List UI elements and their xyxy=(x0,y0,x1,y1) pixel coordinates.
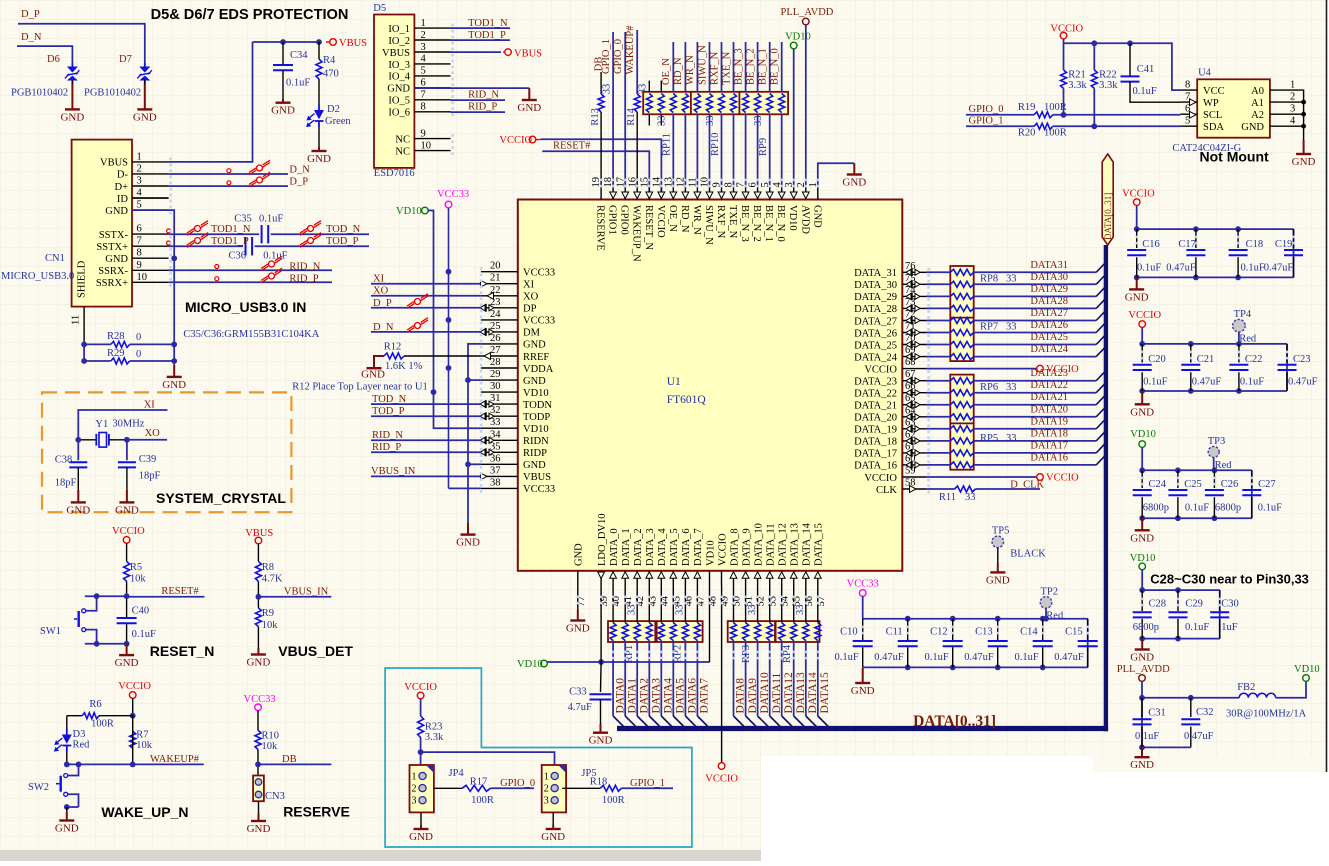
svg-text:DATA_18: DATA_18 xyxy=(854,437,897,448)
svg-text:R4: R4 xyxy=(323,55,336,66)
svg-text:RREF: RREF xyxy=(523,352,549,363)
svg-text:DATA31: DATA31 xyxy=(1030,260,1068,271)
svg-text:GND: GND xyxy=(115,657,139,669)
svg-text:1: 1 xyxy=(412,772,417,783)
svg-text:DATA29: DATA29 xyxy=(1030,284,1068,295)
svg-text:RP7: RP7 xyxy=(980,321,998,332)
svg-text:NC: NC xyxy=(395,134,410,145)
svg-text:DATA_6: DATA_6 xyxy=(681,528,692,566)
svg-text:TP4: TP4 xyxy=(1234,309,1252,320)
svg-text:R13: R13 xyxy=(590,108,601,126)
svg-text:GND: GND xyxy=(361,369,385,381)
svg-text:IO_1: IO_1 xyxy=(388,24,410,35)
svg-text:C41: C41 xyxy=(1137,64,1155,75)
svg-text:6: 6 xyxy=(421,78,426,89)
svg-text:8: 8 xyxy=(421,102,426,113)
svg-text:D+: D+ xyxy=(114,182,128,193)
svg-text:IO_2: IO_2 xyxy=(388,36,410,47)
svg-text:DATA16: DATA16 xyxy=(1030,452,1068,463)
svg-text:GND: GND xyxy=(115,504,139,516)
svg-text:VCC33: VCC33 xyxy=(523,268,555,279)
svg-text:GND: GND xyxy=(271,105,295,117)
svg-text:Red: Red xyxy=(1239,333,1257,344)
svg-text:DATA_12: DATA_12 xyxy=(778,523,789,566)
svg-text:33: 33 xyxy=(747,605,758,616)
svg-text:C21: C21 xyxy=(1197,354,1215,365)
svg-text:DATA_30: DATA_30 xyxy=(854,280,897,291)
svg-text:1: 1 xyxy=(544,772,549,783)
svg-text:Y1: Y1 xyxy=(95,419,108,430)
svg-text:GPIO_1: GPIO_1 xyxy=(601,39,612,74)
svg-text:A2: A2 xyxy=(1251,110,1264,121)
svg-text:GND: GND xyxy=(523,376,546,387)
svg-text:DATA21: DATA21 xyxy=(1030,392,1068,403)
svg-text:BE_N_1: BE_N_1 xyxy=(763,205,774,242)
svg-text:XO: XO xyxy=(145,428,161,439)
svg-text:GND: GND xyxy=(842,177,866,189)
svg-text:SW2: SW2 xyxy=(28,782,49,793)
svg-text:100R: 100R xyxy=(1044,102,1067,113)
svg-text:TOD1_P: TOD1_P xyxy=(211,236,249,247)
svg-text:8: 8 xyxy=(1185,80,1190,91)
svg-text:GND: GND xyxy=(1130,532,1154,544)
svg-text:IO_3: IO_3 xyxy=(388,60,410,71)
svg-text:RP3: RP3 xyxy=(741,645,752,663)
svg-text:TOD1_P: TOD1_P xyxy=(468,30,506,41)
svg-text:Green: Green xyxy=(325,116,351,127)
svg-text:GND: GND xyxy=(1125,291,1149,303)
svg-text:R10: R10 xyxy=(262,731,280,742)
svg-text:R7: R7 xyxy=(136,730,148,741)
svg-text:TOD_P: TOD_P xyxy=(326,236,359,247)
svg-text:GND: GND xyxy=(541,831,565,843)
svg-text:BE_N_2: BE_N_2 xyxy=(745,48,756,85)
svg-text:0.47uF: 0.47uF xyxy=(1264,263,1294,274)
svg-text:27: 27 xyxy=(490,345,501,356)
svg-text:DATA26: DATA26 xyxy=(1030,320,1068,331)
svg-text:D6: D6 xyxy=(47,54,60,65)
svg-text:10k: 10k xyxy=(262,620,279,631)
svg-text:100R: 100R xyxy=(1044,127,1067,138)
svg-text:MICRO_USB3.0: MICRO_USB3.0 xyxy=(1,271,74,282)
svg-text:FT601Q: FT601Q xyxy=(667,394,707,406)
svg-text:0.1uF: 0.1uF xyxy=(1143,376,1167,387)
svg-text:RESET#: RESET# xyxy=(161,586,199,597)
svg-text:D_N: D_N xyxy=(373,322,394,333)
svg-text:3.3k: 3.3k xyxy=(425,732,444,743)
svg-text:RP8: RP8 xyxy=(980,274,998,285)
svg-text:GND: GND xyxy=(1130,406,1154,418)
svg-text:10k: 10k xyxy=(130,574,147,585)
svg-text:WR_N: WR_N xyxy=(691,205,702,235)
svg-text:TP5: TP5 xyxy=(992,526,1010,537)
svg-text:0.47uF: 0.47uF xyxy=(1184,731,1214,742)
svg-text:VCCIO: VCCIO xyxy=(1050,23,1083,34)
svg-text:D_P: D_P xyxy=(21,9,40,20)
svg-text:VCCIO: VCCIO xyxy=(1128,310,1161,321)
svg-text:0.47uF: 0.47uF xyxy=(874,652,904,663)
svg-text:33: 33 xyxy=(657,116,668,127)
svg-text:SSRX-: SSRX- xyxy=(98,266,128,277)
svg-text:ID: ID xyxy=(117,194,128,205)
svg-text:GND: GND xyxy=(566,623,590,635)
svg-text:WAKE_UP_N: WAKE_UP_N xyxy=(101,804,188,820)
svg-text:0.1uF: 0.1uF xyxy=(132,629,156,640)
svg-text:DATA25: DATA25 xyxy=(1030,332,1068,343)
svg-text:C39: C39 xyxy=(139,454,157,465)
svg-text:GND: GND xyxy=(307,153,331,165)
svg-text:R12 Place Top Layer near to U1: R12 Place Top Layer near to U1 xyxy=(292,382,428,393)
svg-text:DATA_9: DATA_9 xyxy=(741,528,752,566)
svg-text:WP: WP xyxy=(1203,98,1219,109)
svg-text:C31: C31 xyxy=(1148,708,1166,719)
svg-text:R14: R14 xyxy=(626,107,637,125)
svg-text:SYSTEM_CRYSTAL: SYSTEM_CRYSTAL xyxy=(156,490,286,506)
svg-text:RP10: RP10 xyxy=(710,133,721,156)
svg-text:DATA_10: DATA_10 xyxy=(753,523,764,566)
svg-text:C18: C18 xyxy=(1246,239,1264,250)
svg-text:DATA15: DATA15 xyxy=(819,672,831,713)
svg-text:VBUS: VBUS xyxy=(514,49,542,60)
svg-text:C28~C30 near to Pin30,33: C28~C30 near to Pin30,33 xyxy=(1150,572,1309,587)
svg-text:0.1uF: 0.1uF xyxy=(1185,622,1209,633)
svg-text:2: 2 xyxy=(544,784,549,795)
svg-text:GND: GND xyxy=(523,460,546,471)
svg-text:VBUS: VBUS xyxy=(382,48,410,59)
svg-text:VCC33: VCC33 xyxy=(244,694,276,705)
svg-text:D_CLK: D_CLK xyxy=(1010,479,1044,490)
svg-text:BLACK: BLACK xyxy=(1010,549,1046,560)
svg-text:0.1uF: 0.1uF xyxy=(1137,263,1161,274)
svg-text:D5: D5 xyxy=(373,3,386,14)
svg-text:2: 2 xyxy=(1290,92,1295,103)
svg-text:GND: GND xyxy=(1292,156,1316,168)
svg-text:7: 7 xyxy=(137,236,142,247)
svg-text:DATA_31: DATA_31 xyxy=(854,268,897,279)
svg-text:33: 33 xyxy=(675,605,686,616)
svg-text:33: 33 xyxy=(601,84,612,95)
svg-text:9: 9 xyxy=(421,128,426,139)
svg-text:29: 29 xyxy=(490,369,501,380)
svg-text:D_P: D_P xyxy=(289,177,308,188)
svg-text:RID_P: RID_P xyxy=(468,102,497,113)
svg-text:D3: D3 xyxy=(73,729,86,740)
svg-text:C27: C27 xyxy=(1258,479,1276,490)
svg-text:GND: GND xyxy=(162,379,186,391)
svg-text:C13: C13 xyxy=(975,627,993,638)
svg-text:WAKEUP#: WAKEUP# xyxy=(625,25,636,75)
svg-text:30MHz: 30MHz xyxy=(112,418,144,429)
svg-text:R21: R21 xyxy=(1068,70,1086,81)
svg-text:VCCIO: VCCIO xyxy=(1046,473,1079,484)
svg-text:XI: XI xyxy=(523,280,535,291)
svg-text:RESERVE: RESERVE xyxy=(595,205,606,251)
svg-text:DATA18: DATA18 xyxy=(1030,428,1068,439)
svg-text:TOD1_N: TOD1_N xyxy=(211,224,251,235)
svg-text:10: 10 xyxy=(421,140,432,151)
svg-text:RESET#: RESET# xyxy=(553,140,591,151)
svg-text:RID_P: RID_P xyxy=(372,442,401,453)
svg-text:GPIO_0: GPIO_0 xyxy=(613,39,624,74)
svg-text:C17: C17 xyxy=(1178,239,1196,250)
svg-text:D_P: D_P xyxy=(373,298,392,309)
svg-text:33: 33 xyxy=(627,605,638,616)
svg-text:VCCIO: VCCIO xyxy=(404,682,437,693)
svg-text:GPIO0: GPIO0 xyxy=(619,205,630,235)
svg-text:DATA_8: DATA_8 xyxy=(729,528,740,566)
svg-text:33: 33 xyxy=(1006,382,1017,393)
svg-text:VD10: VD10 xyxy=(1294,664,1320,675)
svg-text:3: 3 xyxy=(412,796,417,807)
svg-text:A0: A0 xyxy=(1251,86,1264,97)
svg-text:GND: GND xyxy=(66,504,90,516)
svg-text:U1: U1 xyxy=(667,376,681,388)
svg-text:RP2: RP2 xyxy=(672,645,683,663)
svg-text:C33: C33 xyxy=(569,686,587,697)
svg-text:0.47uF: 0.47uF xyxy=(964,652,994,663)
svg-text:C24: C24 xyxy=(1149,479,1167,490)
svg-text:TP3: TP3 xyxy=(1208,436,1226,447)
svg-text:0: 0 xyxy=(136,332,141,343)
svg-text:C19: C19 xyxy=(1275,239,1293,250)
svg-text:Not Mount: Not Mount xyxy=(1200,149,1270,165)
svg-text:GND: GND xyxy=(133,111,157,123)
svg-text:C20: C20 xyxy=(1148,354,1166,365)
svg-text:DATA_21: DATA_21 xyxy=(854,401,897,412)
svg-text:DATA_1: DATA_1 xyxy=(621,528,632,566)
svg-text:RXF_N: RXF_N xyxy=(715,205,726,239)
svg-text:38: 38 xyxy=(490,477,501,488)
svg-text:R9: R9 xyxy=(262,608,274,619)
svg-text:C30: C30 xyxy=(1221,598,1239,609)
svg-text:0: 0 xyxy=(136,349,141,360)
svg-text:DATA_0: DATA_0 xyxy=(609,528,620,566)
svg-text:BE_N_2: BE_N_2 xyxy=(751,205,762,242)
svg-text:4.7uF: 4.7uF xyxy=(568,702,592,713)
svg-text:NC: NC xyxy=(395,146,410,157)
svg-text:DATA_2: DATA_2 xyxy=(633,528,644,566)
svg-text:0.1uF: 0.1uF xyxy=(1185,503,1209,514)
svg-text:30: 30 xyxy=(490,381,501,392)
svg-text:DATA[0..31]: DATA[0..31] xyxy=(913,713,996,730)
svg-text:C40: C40 xyxy=(132,606,150,617)
svg-text:GND: GND xyxy=(1130,759,1154,771)
svg-text:RP4: RP4 xyxy=(782,644,793,663)
svg-text:IO_6: IO_6 xyxy=(388,108,410,119)
svg-text:DATA_29: DATA_29 xyxy=(854,292,897,303)
svg-text:GPIO1: GPIO1 xyxy=(607,205,618,235)
svg-text:FB2: FB2 xyxy=(1237,682,1255,693)
svg-text:Red: Red xyxy=(73,740,91,751)
svg-text:C11: C11 xyxy=(886,627,903,638)
svg-text:4: 4 xyxy=(137,188,143,199)
svg-text:C14: C14 xyxy=(1020,627,1038,638)
svg-text:GND: GND xyxy=(409,831,433,843)
svg-text:VCC33: VCC33 xyxy=(523,316,555,327)
svg-text:WAKEUP_N: WAKEUP_N xyxy=(631,205,642,262)
svg-text:RP1: RP1 xyxy=(624,645,635,663)
svg-text:0.1uF: 0.1uF xyxy=(1014,652,1038,663)
svg-text:DB: DB xyxy=(282,754,297,765)
svg-text:68: 68 xyxy=(905,357,916,368)
svg-text:PLL_AVDD: PLL_AVDD xyxy=(781,7,834,18)
svg-text:SDA: SDA xyxy=(1203,122,1224,133)
svg-text:100R: 100R xyxy=(471,795,494,806)
svg-text:A1: A1 xyxy=(1251,98,1264,109)
svg-text:RP11: RP11 xyxy=(662,133,673,156)
svg-text:C32: C32 xyxy=(1196,707,1214,718)
svg-text:3.3k: 3.3k xyxy=(1068,80,1087,91)
svg-text:RESET_N: RESET_N xyxy=(150,643,215,659)
svg-text:59: 59 xyxy=(905,466,916,477)
svg-text:DATA_22: DATA_22 xyxy=(854,389,897,400)
svg-text:TOD1_N: TOD1_N xyxy=(468,18,508,29)
svg-text:SSTX-: SSTX- xyxy=(99,230,129,241)
svg-text:DATA19: DATA19 xyxy=(1030,416,1068,427)
svg-text:0.1uF: 0.1uF xyxy=(834,652,858,663)
svg-text:C22: C22 xyxy=(1245,354,1263,365)
svg-text:0.1uF: 0.1uF xyxy=(924,652,948,663)
svg-text:4: 4 xyxy=(421,54,427,65)
svg-text:GPIO_0: GPIO_0 xyxy=(500,778,535,789)
svg-text:4: 4 xyxy=(1290,116,1296,127)
svg-text:0.1uF: 0.1uF xyxy=(1135,731,1159,742)
svg-text:GND: GND xyxy=(986,574,1010,586)
svg-text:26: 26 xyxy=(490,333,501,344)
svg-text:6800p: 6800p xyxy=(1143,503,1169,514)
svg-text:RP9: RP9 xyxy=(758,138,769,156)
svg-text:DATA_13: DATA_13 xyxy=(790,523,801,566)
svg-text:PLL_AVDD: PLL_AVDD xyxy=(1117,664,1170,675)
svg-text:RP5: RP5 xyxy=(980,433,998,444)
svg-text:1: 1 xyxy=(1290,80,1295,91)
svg-text:R19: R19 xyxy=(1018,102,1036,113)
svg-text:18pF: 18pF xyxy=(139,471,161,482)
svg-text:TOD_N: TOD_N xyxy=(372,394,407,405)
svg-text:0.1uF: 0.1uF xyxy=(1258,503,1282,514)
svg-text:C34: C34 xyxy=(290,50,308,61)
svg-text:10: 10 xyxy=(137,272,148,283)
svg-text:33: 33 xyxy=(753,116,764,127)
svg-text:30R@100MHz/1A: 30R@100MHz/1A xyxy=(1226,709,1307,720)
svg-text:XO: XO xyxy=(373,286,389,297)
svg-text:33: 33 xyxy=(1006,433,1017,444)
svg-text:0.1uF: 0.1uF xyxy=(259,214,283,225)
svg-text:DATA27: DATA27 xyxy=(1030,308,1068,319)
svg-text:VD10: VD10 xyxy=(523,424,549,435)
svg-text:LDO_DV10: LDO_DV10 xyxy=(597,514,608,567)
svg-text:TODP: TODP xyxy=(523,412,550,423)
svg-text:DATA_3: DATA_3 xyxy=(645,528,656,566)
svg-text:GND: GND xyxy=(60,111,84,123)
svg-text:6: 6 xyxy=(137,224,142,235)
svg-text:TOD_N: TOD_N xyxy=(326,224,361,235)
svg-text:VD10: VD10 xyxy=(1130,429,1156,440)
svg-text:10k: 10k xyxy=(136,740,153,751)
svg-text:C35/C36:GRM155B31C104KA: C35/C36:GRM155B31C104KA xyxy=(183,329,319,340)
svg-text:RESET_N: RESET_N xyxy=(643,205,654,250)
svg-text:BE_N_0: BE_N_0 xyxy=(775,205,786,242)
svg-text:GND: GND xyxy=(247,823,271,835)
svg-text:R23: R23 xyxy=(425,722,443,733)
svg-text:VBUS_DET: VBUS_DET xyxy=(278,643,353,659)
svg-text:C23: C23 xyxy=(1293,354,1311,365)
svg-text:GPIO_0: GPIO_0 xyxy=(969,104,1004,115)
svg-text:CN3: CN3 xyxy=(265,791,285,802)
svg-text:VD10: VD10 xyxy=(396,206,422,217)
svg-text:6800p: 6800p xyxy=(1133,622,1159,633)
svg-text:GND: GND xyxy=(456,537,480,549)
svg-text:XI: XI xyxy=(144,400,156,411)
svg-text:DATA[0..31]: DATA[0..31] xyxy=(1103,193,1113,240)
svg-text:R11: R11 xyxy=(939,492,956,503)
svg-text:9: 9 xyxy=(137,260,142,271)
svg-text:RD_N: RD_N xyxy=(679,205,690,233)
svg-text:TODN: TODN xyxy=(523,400,552,411)
svg-text:SSRX+: SSRX+ xyxy=(96,278,128,289)
svg-text:TOD_P: TOD_P xyxy=(372,406,405,417)
svg-text:3: 3 xyxy=(137,176,142,187)
svg-text:VCCIO: VCCIO xyxy=(864,364,897,375)
svg-text:C15: C15 xyxy=(1065,627,1083,638)
svg-text:5: 5 xyxy=(421,66,426,77)
svg-text:VCCIO: VCCIO xyxy=(118,681,151,692)
svg-text:DATA_25: DATA_25 xyxy=(854,340,897,351)
svg-text:DATA24: DATA24 xyxy=(1030,344,1068,355)
svg-text:SSTX+: SSTX+ xyxy=(96,242,128,253)
svg-text:CN1: CN1 xyxy=(45,253,65,264)
svg-text:RID_N: RID_N xyxy=(289,261,320,272)
svg-text:VD10: VD10 xyxy=(785,32,811,43)
svg-text:VDDA: VDDA xyxy=(523,364,554,375)
svg-text:BE_N_0: BE_N_0 xyxy=(770,48,781,85)
svg-text:VBUS: VBUS xyxy=(523,472,551,483)
svg-text:U4: U4 xyxy=(1198,68,1212,79)
svg-text:36: 36 xyxy=(490,453,501,464)
svg-text:DATA20: DATA20 xyxy=(1030,404,1068,415)
svg-text:100R: 100R xyxy=(602,795,625,806)
svg-text:1uF: 1uF xyxy=(1221,622,1238,633)
svg-text:4.7K: 4.7K xyxy=(262,574,283,585)
svg-text:DATA_5: DATA_5 xyxy=(669,528,680,566)
svg-text:C29: C29 xyxy=(1185,598,1203,609)
svg-text:C36: C36 xyxy=(229,251,247,262)
svg-text:2: 2 xyxy=(137,163,142,174)
svg-text:0.1uF: 0.1uF xyxy=(286,78,310,89)
svg-text:1: 1 xyxy=(137,151,142,162)
svg-text:D5& D6/7 EDS PROTECTION: D5& D6/7 EDS PROTECTION xyxy=(151,7,349,23)
svg-text:TXE_N: TXE_N xyxy=(721,51,732,85)
svg-text:C12: C12 xyxy=(930,627,948,638)
svg-text:TP2: TP2 xyxy=(1041,586,1059,597)
svg-text:11: 11 xyxy=(71,315,82,325)
svg-text:VCCIO: VCCIO xyxy=(655,205,666,238)
svg-text:D7: D7 xyxy=(119,54,132,65)
svg-text:DATA_28: DATA_28 xyxy=(854,304,897,315)
svg-text:0.47uF: 0.47uF xyxy=(1288,376,1318,387)
svg-text:DATA_19: DATA_19 xyxy=(854,425,897,436)
svg-text:0.47uF: 0.47uF xyxy=(1192,376,1222,387)
svg-text:10k: 10k xyxy=(262,741,279,752)
svg-text:XO: XO xyxy=(523,292,539,303)
svg-text:XI: XI xyxy=(373,274,385,285)
svg-text:DATA_14: DATA_14 xyxy=(802,522,813,566)
svg-text:VCCIO: VCCIO xyxy=(112,526,145,537)
svg-text:33: 33 xyxy=(705,116,716,127)
svg-text:0.1uF: 0.1uF xyxy=(1241,263,1265,274)
svg-text:VBUS_IN: VBUS_IN xyxy=(371,466,416,477)
svg-text:SCL: SCL xyxy=(1203,110,1222,121)
